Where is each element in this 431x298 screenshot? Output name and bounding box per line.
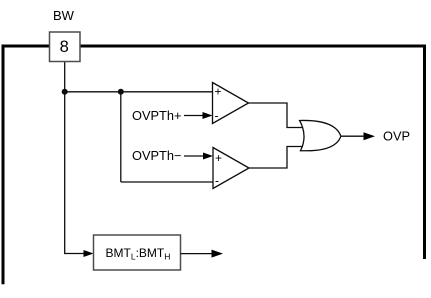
label OVPTh+	[132, 108, 181, 123]
svg-text:-: -	[215, 174, 219, 188]
wire BMT output arrow	[181, 250, 224, 258]
port box BW	[50, 32, 81, 62]
comparator U1	[213, 83, 249, 124]
wire bus horizontal to comparator U1	[65, 91, 213, 93]
comparator U2	[213, 148, 249, 189]
svg-text:OVPTh−: OVPTh−	[132, 148, 181, 163]
wire bus branch horizontal to comparator U2	[121, 181, 213, 183]
junction dot A	[62, 89, 68, 95]
label BW	[53, 8, 75, 23]
wire arrow into BMT box	[84, 250, 94, 257]
svg-text:BW: BW	[53, 8, 75, 23]
wire OVP output arrow	[341, 132, 375, 140]
svg-text:OVP: OVP	[383, 129, 410, 144]
wire bus branch vertical to comparator U2	[120, 92, 122, 182]
label BMTL:BMTH	[106, 246, 171, 262]
bus width value 8	[60, 38, 69, 56]
wire OVPTh- arrow into U2 plus input	[184, 153, 213, 160]
wire U2 output to OR gate bottom input	[249, 147, 304, 169]
boundary top line	[2, 44, 427, 47]
label OVP	[383, 129, 410, 144]
boundary right line	[423, 45, 426, 259]
label OVPTh-	[132, 148, 181, 163]
wire BW bus vertical	[65, 62, 85, 254]
svg-text:+: +	[215, 151, 222, 165]
register box BMT	[94, 235, 181, 270]
svg-text:BMTL:BMTH: BMTL:BMTH	[106, 246, 171, 262]
wire OVPTh+ arrow into U1 minus input	[184, 112, 213, 119]
svg-text:+: +	[215, 85, 222, 99]
wire U1 output to OR gate top input	[249, 103, 305, 128]
svg-text:8: 8	[60, 38, 69, 56]
junction dot B	[118, 89, 124, 95]
or-gate U3	[300, 120, 341, 150]
svg-text:-: -	[215, 109, 219, 123]
svg-text:OVPTh+: OVPTh+	[132, 108, 181, 123]
boundary left line	[2, 45, 5, 284]
